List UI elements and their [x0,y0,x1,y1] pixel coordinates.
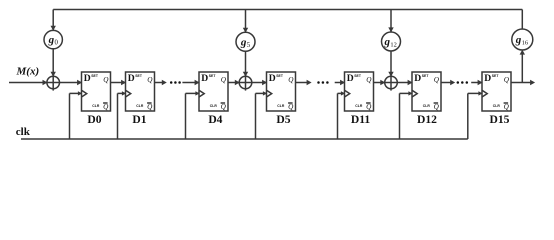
svg-text:CLR: CLR [210,104,218,108]
wire D12 Q toward dots [441,80,455,85]
svg-text:SET: SET [91,74,99,78]
svg-text:Q: Q [504,103,510,111]
svg-text:Q: Q [221,76,227,84]
svg-text:Q: Q [288,103,294,111]
svg-text:16: 16 [522,40,528,47]
wire dots to D11 D [335,80,345,85]
wire clk to D12 clock [400,91,413,139]
wire clk bus [21,138,468,140]
wire tap down to g0 [51,10,56,31]
ellipsis dots D1-D4 [170,81,181,84]
D flip-flop D1 [126,72,155,126]
svg-text:CLR: CLR [277,104,285,108]
wire XOR A2 to D5 [252,80,267,85]
svg-text:Q: Q [147,76,153,84]
wire clk to D0 clock [70,91,83,139]
wire XOR A3 to D12 [397,80,412,85]
svg-text:Q: Q [366,76,372,84]
svg-text:Q: Q [147,103,153,111]
svg-text:D4: D4 [208,113,222,126]
D flip-flop D0 [82,72,111,126]
svg-text:CLR: CLR [493,104,501,108]
wire dots to D15 D [471,80,482,85]
svg-text:12: 12 [390,42,396,49]
svg-text:Q: Q [103,76,109,84]
ellipsis dots D5-D11 [317,81,328,84]
wire tap down to g12 [388,10,393,33]
svg-text:D: D [84,73,91,84]
svg-text:D: D [128,73,135,84]
wire D4 Q to XOR A2 [228,80,240,85]
wire dots to D4 D [182,80,199,85]
wire M(x) input to XOR A1 [9,80,48,85]
svg-text:Q: Q [366,103,372,111]
D flip-flop D4 [199,72,228,126]
svg-text:Q: Q [221,103,227,111]
svg-text:5: 5 [247,42,251,49]
svg-text:CLR: CLR [355,104,363,108]
svg-text:D: D [414,73,421,84]
XOR gate A1 [47,76,60,90]
multiplier tap g5 [236,32,255,51]
wire clk to D1 clock [118,91,127,139]
wire clk to D15 clock [468,91,483,139]
wire g12 to XOR A3 [388,51,393,77]
wire D1 Q toward dots [155,80,167,85]
svg-text:Q: Q [434,76,440,84]
svg-text:SET: SET [276,74,284,78]
svg-text:CLR: CLR [136,104,144,108]
wire D15 Q output [511,80,535,85]
svg-text:D: D [484,73,491,84]
svg-text:0: 0 [55,40,59,47]
wire clk to D4 clock [186,91,200,139]
svg-text:D: D [269,73,276,84]
XOR gate A3 [385,76,398,90]
svg-text:D5: D5 [276,113,290,126]
svg-text:Q: Q [288,76,294,84]
svg-text:Q: Q [103,103,109,111]
svg-text:D11: D11 [351,113,371,126]
svg-text:SET: SET [492,74,500,78]
svg-text:SET: SET [209,74,217,78]
D flip-flop D11 [345,72,374,126]
D flip-flop D5 [267,72,296,126]
svg-text:D: D [347,73,354,84]
svg-text:D15: D15 [490,113,510,126]
wire clk to D11 clock [338,91,346,139]
svg-text:M(x): M(x) [16,66,40,78]
svg-text:CLR: CLR [92,104,100,108]
svg-text:D12: D12 [417,113,437,126]
XOR gate A2 [239,76,252,90]
wire D11 Q to XOR A3 [374,80,386,85]
wire g0 to XOR A1 [51,49,56,77]
wire top bus down to g16 [521,10,523,30]
wire clk to D5 clock [256,91,268,139]
svg-text:Q: Q [434,103,440,111]
multiplier tap g0 [44,30,62,48]
wire g5 to XOR A2 [243,51,248,77]
wire tap down to g5 [243,10,248,33]
svg-text:Q: Q [504,76,510,84]
wire D15 output up to g16 [520,50,525,83]
D flip-flop D15 [482,72,511,126]
multiplier tap g16 [512,29,533,50]
ellipsis dots D12-D15 [457,81,469,84]
svg-text:SET: SET [135,74,143,78]
svg-text:clk: clk [16,126,31,138]
svg-text:D: D [201,73,208,84]
input label M(x) [16,66,40,78]
svg-text:CLR: CLR [423,104,431,108]
svg-text:SET: SET [422,74,430,78]
multiplier tap g12 [382,32,401,51]
svg-text:D1: D1 [132,113,146,126]
svg-text:SET: SET [354,74,362,78]
wire feedback bus (top) [53,9,522,11]
wire XOR A1 to D0 [60,80,83,85]
wire D5 Q toward dots [296,80,312,85]
svg-text:D0: D0 [87,113,101,126]
wire D0 Q to D1 D [111,80,127,85]
clock label clk [16,126,31,138]
D flip-flop D12 [412,72,441,126]
